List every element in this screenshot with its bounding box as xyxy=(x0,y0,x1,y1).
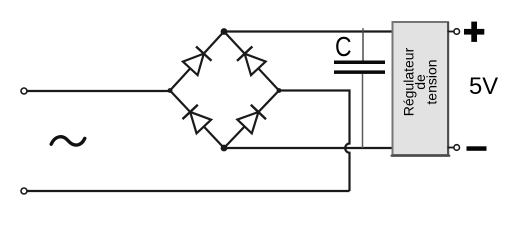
wire: bottom-left terminal to corner below bridge right node xyxy=(27,190,349,192)
svg-text:5V: 5V xyxy=(469,73,498,100)
regulator box darker right edge xyxy=(447,22,449,156)
regulator box darker bottom edge xyxy=(392,154,450,156)
diode D4 lower-right (conducts B to R) xyxy=(237,105,266,134)
bridge side B-L xyxy=(170,91,224,149)
wire: regulator + output stub xyxy=(448,31,455,33)
voltage regulator U1 box xyxy=(393,22,449,155)
bridge side T-R xyxy=(224,32,279,91)
wire: top-left terminal to bridge left node xyxy=(27,90,170,92)
AC input terminal bottom-left xyxy=(21,188,27,194)
AC source tilde symbol xyxy=(51,137,85,145)
AC input terminal top-left xyxy=(21,88,27,94)
bridge side L-T xyxy=(170,32,224,91)
diode D2 upper-right (conducts R to T) xyxy=(237,47,266,76)
capacitor C bottom plate xyxy=(334,70,385,74)
capacitor C top lead xyxy=(362,28,364,60)
wire: vertical riser with hop over DC- rail, then to bridge right node xyxy=(279,91,350,192)
output terminal - xyxy=(454,145,460,151)
junction dot node L xyxy=(168,88,173,93)
svg-text:C: C xyxy=(335,32,352,63)
diode D1 upper-left (conducts L to T) xyxy=(183,47,212,76)
capacitor C bottom lead xyxy=(362,74,364,148)
diode D3 lower-left (conducts B to L) xyxy=(183,105,212,134)
regulator label "Régulateur de tension" (rotated) xyxy=(401,47,440,116)
wire: DC- rail from bridge bottom node to regulator xyxy=(224,147,392,149)
minus sign xyxy=(467,146,487,151)
wire: regulator - output stub xyxy=(448,147,455,149)
junction dot node B xyxy=(221,145,228,152)
capacitor C top plate xyxy=(334,61,385,65)
wire: DC+ rail from bridge top node to regulator xyxy=(224,30,392,32)
plus sign xyxy=(464,22,484,42)
junction dot node T xyxy=(221,28,228,35)
bridge side R-B xyxy=(224,91,279,149)
svg-text:tension: tension xyxy=(424,59,440,104)
junction dot node R xyxy=(277,88,282,93)
output terminal + xyxy=(454,29,460,35)
